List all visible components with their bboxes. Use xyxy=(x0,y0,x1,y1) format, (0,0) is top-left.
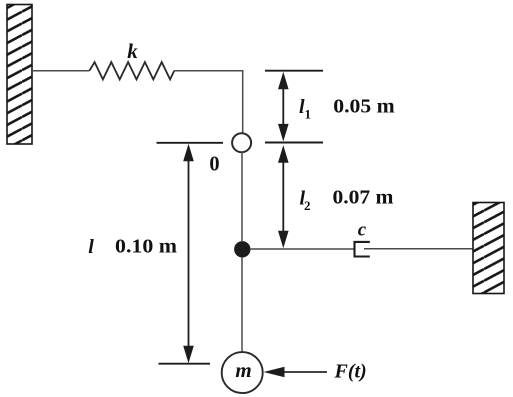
reference tick at pivot level (left) xyxy=(157,142,224,144)
dimension line l2 (vertical with arrows) xyxy=(278,145,289,248)
node (pivot attachment, filled dot) xyxy=(234,241,250,257)
svg-text:c: c xyxy=(358,220,367,241)
dimension line l (left, vertical with arrows) xyxy=(183,144,194,363)
svg-text:0.05 m: 0.05 m xyxy=(333,96,395,118)
svg-text:k: k xyxy=(127,39,138,63)
bottom tick for dimension l xyxy=(159,363,211,365)
svg-text:1: 1 xyxy=(305,107,312,122)
pivot circle 0 xyxy=(232,133,251,152)
wire: vertical rod upper segment xyxy=(242,70,244,133)
spring k (zigzag) xyxy=(89,62,174,79)
svg-text:0: 0 xyxy=(209,152,219,176)
wire: rod between node and mass xyxy=(241,257,243,352)
damper c (cup bracket) xyxy=(355,242,370,257)
tick top right (spring level) xyxy=(265,70,323,72)
wire from left wall to spring xyxy=(32,70,89,72)
svg-text:F(t): F(t) xyxy=(334,361,367,383)
svg-text:0.07 m: 0.07 m xyxy=(333,187,394,209)
wire from spring to top corner xyxy=(174,70,243,72)
svg-text:l: l xyxy=(88,236,94,258)
tick middle right (pivot level) xyxy=(265,142,323,144)
damper piston rod to right wall xyxy=(364,248,473,250)
force F(t) arrow pointing at mass xyxy=(264,367,328,378)
mass m circle xyxy=(222,352,263,393)
svg-text:2: 2 xyxy=(304,198,311,213)
svg-text:0.10 m: 0.10 m xyxy=(115,236,177,258)
right wall (fixed support, hatched) xyxy=(473,203,504,294)
svg-text:m: m xyxy=(235,358,251,382)
wire from node to damper xyxy=(251,248,354,250)
left wall (fixed support, hatched) xyxy=(7,5,32,145)
wire: rod between pivot and node xyxy=(241,152,243,241)
dimension line l1 (vertical with arrows) xyxy=(278,72,289,142)
